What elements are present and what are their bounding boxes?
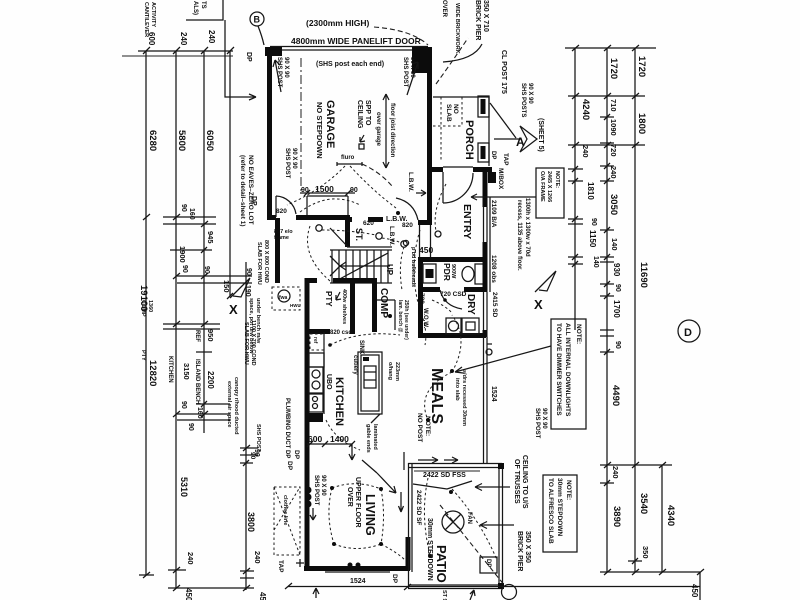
- svg-text:TAP: TAP: [277, 560, 284, 573]
- patio top double line: [408, 463, 502, 465]
- svg-text:240: 240: [207, 30, 216, 44]
- svg-text:1810: 1810: [586, 182, 595, 200]
- dim line R3: [634, 48, 636, 572]
- svg-text:240: 240: [186, 552, 195, 565]
- svg-text:(SHS post each end): (SHS post each end): [316, 61, 384, 68]
- patio left sliding door double: [408, 463, 410, 588]
- dim 1500: [300, 192, 355, 194]
- svg-text:90: 90: [245, 268, 252, 276]
- entry door arc: [443, 172, 473, 203]
- long dashed diagonal to DP: [440, 505, 505, 586]
- svg-text:3890: 3890: [611, 506, 622, 527]
- GARAGE AND TOP: [250, 18, 432, 218]
- svg-text:X: X: [229, 302, 238, 317]
- svg-text:90 X 90: 90 X 90: [527, 83, 533, 104]
- svg-text:X: X: [534, 297, 543, 312]
- corner arrows: [377, 473, 396, 493]
- svg-text:D: D: [684, 327, 692, 339]
- corner line bottom right: [699, 572, 701, 600]
- right wall of meals window 1524: [483, 337, 485, 464]
- svg-text:SHS POST: SHS POST: [313, 475, 319, 506]
- svg-text:3150: 3150: [182, 363, 191, 380]
- BOTTOM BOUNDARY: [285, 583, 700, 600]
- svg-text:NO STEPDOWN: NO STEPDOWN: [315, 102, 324, 159]
- svg-text:REF: REF: [194, 330, 200, 342]
- svg-text:90: 90: [614, 341, 621, 349]
- dots on bottom wall: [348, 563, 353, 568]
- corner piers black: [498, 463, 504, 469]
- dim line left A 19100: [145, 51, 147, 575]
- svg-text:ST.: ST.: [354, 228, 364, 241]
- garage rear wall with door: [267, 215, 276, 220]
- ref space dashed: [310, 334, 324, 350]
- svg-text:BRICK PIER: BRICK PIER: [516, 531, 523, 571]
- svg-text:90 X 90: 90 X 90: [291, 148, 297, 169]
- svg-text:90: 90: [181, 265, 188, 273]
- svg-text:B: B: [254, 15, 261, 25]
- svg-text:PTY: PTY: [140, 350, 146, 361]
- island bench: [358, 352, 382, 414]
- grid bubble B: [250, 12, 264, 26]
- svg-text:720: 720: [609, 144, 618, 157]
- garage door arc 820: [275, 196, 277, 217]
- svg-text:into slab: into slab: [454, 378, 460, 401]
- svg-text:820: 820: [276, 208, 287, 215]
- svg-text:NO POST: NO POST: [416, 413, 423, 442]
- svg-text:250h (see under): 250h (see under): [403, 300, 409, 340]
- RIGHT DIMENSION GRID: [565, 45, 704, 600]
- svg-text:UBO: UBO: [325, 374, 332, 390]
- RIGHT OUTER WALL: [471, 167, 586, 429]
- svg-text:fwa: fwa: [279, 295, 288, 301]
- svg-text:2200: 2200: [206, 371, 215, 389]
- svg-text:30mm STEPDOWN: 30mm STEPDOWN: [426, 518, 433, 581]
- dim line left D: [229, 51, 231, 296]
- cut circle bottom: [502, 585, 517, 600]
- svg-text:6280: 6280: [147, 130, 158, 151]
- svg-text:PATIO: PATIO: [434, 545, 449, 583]
- svg-text:1090: 1090: [609, 119, 618, 136]
- svg-text:1800: 1800: [636, 113, 647, 134]
- pantry bottom wall: [305, 329, 330, 334]
- svg-text:4340: 4340: [665, 505, 676, 526]
- PDR toilet: [475, 264, 484, 284]
- svg-text:gable ends: gable ends: [365, 424, 371, 453]
- svg-text:OVER: OVER: [441, 0, 447, 18]
- meals dashed wiring: [425, 372, 452, 420]
- svg-text:12820: 12820: [147, 360, 158, 386]
- svg-text:L.B.W.: L.B.W.: [388, 226, 395, 246]
- svg-text:M/BOX: M/BOX: [497, 168, 504, 190]
- lights in hall: [316, 225, 322, 231]
- svg-text:frame: frame: [274, 235, 289, 241]
- svg-text:90 X 90: 90 X 90: [283, 57, 289, 78]
- porch outline: [433, 97, 489, 166]
- svg-text:DP: DP: [485, 559, 491, 567]
- svg-text:160: 160: [196, 407, 203, 419]
- svg-text:450: 450: [184, 588, 193, 600]
- hotplate unit: [309, 394, 323, 412]
- svg-text:NOTE:: NOTE:: [565, 480, 572, 500]
- svg-text:CEILING: CEILING: [356, 100, 363, 129]
- svg-text:1300h x 1300w x 70d: 1300h x 1300w x 70d: [524, 198, 530, 257]
- dim line R4: [661, 465, 663, 572]
- LIVING: [274, 450, 410, 585]
- svg-text:DRY: DRY: [465, 294, 476, 315]
- svg-text:ref: ref: [312, 337, 318, 344]
- fan: [442, 511, 464, 533]
- svg-text:external air space: external air space: [226, 381, 232, 427]
- ENTRY NICHE PDR DRY: [403, 172, 486, 337]
- PDR top wall: [418, 257, 486, 262]
- svg-text:SHS POST: SHS POST: [534, 408, 540, 439]
- svg-text:90: 90: [180, 401, 187, 409]
- main left wall: [305, 278, 310, 571]
- svg-text:DP: DP: [286, 461, 293, 471]
- svg-text:11690: 11690: [638, 262, 649, 288]
- tick rows left: [163, 216, 216, 218]
- stair arrow: [340, 262, 390, 270]
- corner slashes: [285, 583, 411, 590]
- stair diagonal: [330, 228, 348, 247]
- svg-text:1700: 1700: [612, 300, 621, 318]
- svg-text:1208 obs: 1208 obs: [490, 255, 497, 283]
- stairs treads: [332, 250, 388, 283]
- svg-text:SHS POSTS: SHS POSTS: [520, 83, 526, 117]
- svg-text:450: 450: [419, 245, 433, 255]
- svg-text:90: 90: [614, 284, 621, 292]
- DP box patio: [480, 557, 497, 573]
- svg-text:45: 45: [258, 592, 267, 600]
- svg-text:DP: DP: [245, 52, 252, 62]
- svg-text:SHS POST: SHS POST: [255, 424, 261, 452]
- svg-text:930: 930: [612, 263, 621, 277]
- svg-text:L.B.W.: L.B.W.: [407, 172, 414, 192]
- svg-text:350 X 710: 350 X 710: [482, 0, 489, 32]
- svg-text:LIVING: LIVING: [363, 494, 377, 536]
- svg-text:240: 240: [179, 32, 188, 46]
- svg-text:240: 240: [253, 551, 262, 564]
- patio bottom: [408, 584, 503, 586]
- hall left wall: [275, 218, 280, 283]
- tick slashes: [143, 214, 250, 591]
- PDR bottom wall with 720 csd: [418, 287, 440, 292]
- dim line R1: [574, 48, 576, 330]
- floor joist direction arrow: [385, 94, 387, 168]
- svg-text:90 X 90: 90 X 90: [320, 475, 326, 496]
- svg-text:3800: 3800: [246, 512, 256, 532]
- svg-text:5800: 5800: [176, 130, 187, 151]
- svg-text:WIDE BRICKWORK: WIDE BRICKWORK: [454, 3, 460, 54]
- top horizontal dim line: [138, 50, 233, 52]
- garage right wall: [427, 56, 432, 225]
- dim line left C: [203, 51, 205, 433]
- svg-text:800 X 800 COND: 800 X 800 COND: [263, 240, 269, 283]
- svg-text:820 csd: 820 csd: [330, 330, 352, 336]
- svg-text:COMP: COMP: [378, 288, 389, 318]
- svg-text:SLAB FOR HWU: SLAB FOR HWU: [256, 242, 262, 285]
- clothes line: [274, 487, 300, 555]
- svg-text:ALL INTERNAL DOWNLIGHTS: ALL INTERNAL DOWNLIGHTS: [564, 323, 571, 417]
- ST closet wall: [345, 219, 350, 247]
- svg-text:710: 710: [609, 99, 618, 112]
- svg-text:BRICK PIER: BRICK PIER: [474, 0, 481, 40]
- garage door left jamb: [265, 47, 282, 56]
- svg-text:223mm: 223mm: [394, 362, 400, 381]
- svg-text:CANTILEVER: CANTILEVER: [143, 2, 149, 37]
- entry wall stub: [418, 220, 432, 225]
- window in bottom wall: [325, 571, 390, 573]
- tick slashes right: [572, 45, 704, 575]
- svg-text:TS: TS: [200, 1, 206, 9]
- joists note box: [186, 0, 223, 20]
- svg-text:900W: 900W: [450, 264, 456, 279]
- svg-text:620: 620: [363, 220, 374, 227]
- window 1208 obs: [483, 207, 485, 242]
- svg-text:945: 945: [206, 231, 215, 244]
- svg-text:o/hang: o/hang: [387, 362, 393, 380]
- svg-text:1720: 1720: [636, 56, 647, 77]
- grid bubble D: [678, 320, 700, 342]
- svg-text:DP: DP: [250, 196, 257, 206]
- svg-text:ST 90: ST 90: [441, 590, 447, 600]
- svg-text:4240: 4240: [580, 99, 591, 120]
- svg-text:fluro: fluro: [341, 155, 355, 161]
- PDR vanity: [423, 264, 436, 283]
- left arrows: [399, 492, 404, 512]
- PANTRY COMP KITCHEN: [272, 278, 409, 571]
- svg-text:W.O.W.: W.O.W.: [422, 308, 428, 329]
- section marker X left: [230, 278, 250, 298]
- svg-text:350 X 350: 350 X 350: [524, 531, 531, 563]
- svg-text:820: 820: [402, 222, 413, 229]
- svg-text:160: 160: [188, 208, 195, 220]
- svg-text:KITCHEN: KITCHEN: [167, 356, 173, 383]
- front wall: [427, 167, 443, 172]
- svg-text:1524: 1524: [350, 578, 366, 585]
- svg-text:720 CSD: 720 CSD: [440, 291, 467, 298]
- svg-text:150: 150: [222, 280, 231, 293]
- kitchen dim 600 1400: [307, 443, 352, 445]
- garage panelift door lines: [270, 46, 428, 48]
- svg-text:KITCHEN: KITCHEN: [333, 377, 345, 426]
- svg-text:PTY: PTY: [324, 291, 333, 307]
- svg-text:SLAB: SLAB: [445, 104, 452, 122]
- living right wall lower: [406, 537, 411, 570]
- svg-text:90 X 90: 90 X 90: [541, 408, 547, 429]
- svg-text:ISLAND BENCH: ISLAND BENCH: [194, 359, 200, 404]
- svg-text:under bench m/w: under bench m/w: [255, 298, 261, 344]
- DRY door arc: [440, 290, 462, 309]
- wall post blobs: [305, 487, 312, 494]
- svg-text:DP: DP: [293, 450, 300, 460]
- svg-text:OVER: OVER: [346, 487, 353, 507]
- svg-text:1720: 1720: [608, 58, 619, 79]
- svg-text:90: 90: [187, 423, 194, 431]
- svg-text:NOTE:: NOTE:: [554, 171, 560, 188]
- hall bottom wall: [305, 278, 317, 283]
- patio dashed wiring: [424, 478, 430, 555]
- sliding door 2415 SD: [483, 292, 485, 330]
- svg-text:190: 190: [244, 285, 251, 297]
- svg-text:2422 SD FSS: 2422 SD FSS: [423, 472, 466, 479]
- dot: [396, 211, 400, 215]
- svg-text:240: 240: [609, 166, 618, 179]
- kitchen dashed wiring: [330, 334, 400, 345]
- ticks top: [143, 47, 234, 54]
- svg-text:laminated: laminated: [372, 424, 378, 450]
- svg-text:over garage: over garage: [375, 112, 381, 147]
- PATIO: [399, 452, 578, 589]
- section marker X right: [535, 271, 556, 292]
- svg-text:(refer to detail–sheet 1): (refer to detail–sheet 1): [239, 155, 246, 227]
- comp wall: [372, 278, 377, 332]
- joists leader: [225, 20, 256, 100]
- svg-text:A: A: [516, 135, 525, 149]
- DRY bottom wall: [418, 333, 486, 338]
- svg-text:CL POST 175: CL POST 175: [500, 50, 507, 94]
- svg-text:lam. bench @: lam. bench @: [397, 300, 403, 333]
- svg-text:4490: 4490: [610, 385, 621, 406]
- pantry divider wall: [350, 278, 355, 332]
- svg-text:2109 B/A: 2109 B/A: [490, 200, 497, 228]
- leader dashed to door: [374, 27, 428, 45]
- svg-text:TO HAVE DIMMER SWITCHES: TO HAVE DIMMER SWITCHES: [555, 323, 562, 416]
- svg-text:SHS POST: SHS POST: [284, 148, 290, 179]
- svg-text:1150: 1150: [588, 230, 597, 248]
- svg-text:NOTE:: NOTE:: [575, 324, 582, 344]
- garage centerline dashed: [300, 58, 302, 193]
- svg-text:COMP: COMP: [140, 300, 146, 317]
- svg-text:TO ALFRESCO SLAB: TO ALFRESCO SLAB: [547, 478, 554, 544]
- svg-text:2415 SD: 2415 SD: [491, 292, 498, 318]
- svg-text:floor joist direction: floor joist direction: [389, 103, 395, 158]
- living dashed loop: [332, 484, 381, 489]
- svg-text:2422 SD SF: 2422 SD SF: [415, 490, 422, 525]
- hall-entry door arc: [396, 198, 418, 220]
- svg-text:90: 90: [180, 204, 187, 212]
- svg-text:TAP: TAP: [502, 153, 509, 166]
- svg-text:450: 450: [690, 584, 699, 598]
- svg-text:3050: 3050: [608, 194, 619, 215]
- svg-text:2465 X 1266: 2465 X 1266: [546, 171, 552, 202]
- svg-text:UP: UP: [385, 264, 394, 276]
- svg-text:3540: 3540: [638, 493, 649, 514]
- svg-text:140: 140: [610, 238, 619, 251]
- entry right wall: [483, 167, 488, 207]
- svg-text:p'bd bulkheads: p'bd bulkheads: [410, 247, 416, 287]
- svg-text:space, pot drw below: space, pot drw below: [248, 298, 254, 354]
- svg-text:600: 600: [308, 434, 322, 444]
- svg-text:DP: DP: [391, 574, 398, 584]
- svg-text:s/drs recessed 30mm: s/drs recessed 30mm: [461, 370, 467, 426]
- svg-text:SINK: SINK: [358, 340, 364, 355]
- svg-text:cutlery: cutlery: [352, 355, 358, 375]
- PORCH ENTRY TOP RIGHT: [427, 0, 544, 225]
- wall top of ST with 620 door: [348, 217, 352, 222]
- svg-text:PORCH: PORCH: [463, 120, 475, 160]
- patio right: [498, 463, 500, 588]
- svg-text:350: 350: [641, 546, 650, 559]
- top arrows: [418, 457, 458, 463]
- svg-text:OF TRUSSES: OF TRUSSES: [513, 459, 520, 504]
- svg-text:ENTRY: ENTRY: [461, 204, 473, 239]
- kitchen bench outline: [323, 332, 325, 414]
- PDR left wall: [418, 259, 423, 290]
- dim line left B: [175, 51, 177, 588]
- HALL STAIRS ST: [256, 184, 426, 345]
- entry dashed electrical: [435, 184, 446, 231]
- svg-text:6050: 6050: [204, 130, 215, 151]
- DRY left wall: [418, 290, 423, 337]
- svg-text:90: 90: [203, 266, 210, 274]
- garage electrical dashed: [287, 166, 345, 205]
- svg-text:UPPER FLOOR: UPPER FLOOR: [354, 477, 361, 528]
- svg-text:CEILING TO U/S: CEILING TO U/S: [521, 455, 528, 509]
- svg-text:(SHEET 5): (SHEET 5): [537, 118, 544, 152]
- svg-text:1360: 1360: [147, 300, 153, 312]
- svg-text:NO EAVES–ZERO LOT: NO EAVES–ZERO LOT: [247, 155, 254, 225]
- comp desk: [377, 299, 395, 301]
- dim line left E 3800: [245, 262, 247, 590]
- DRY trough and washer: [446, 318, 461, 334]
- m/box black marker: [488, 172, 496, 183]
- svg-text:HWU: HWU: [290, 303, 301, 308]
- svg-text:DP: DP: [490, 151, 496, 159]
- svg-text:400w shelves: 400w shelves: [341, 289, 347, 324]
- svg-text:SHS POST: SHS POST: [402, 57, 408, 88]
- svg-text:O/A FRAME: O/A FRAME: [539, 171, 545, 202]
- fwa circle: [272, 287, 300, 310]
- dim line R2: [606, 48, 608, 572]
- garage left wall: [267, 47, 272, 218]
- svg-text:PLUMBING DUCT DP: PLUMBING DUCT DP: [284, 398, 290, 458]
- svg-text:5310: 5310: [179, 477, 189, 497]
- leader to note1: [455, 346, 551, 373]
- svg-text:ALS): ALS): [192, 1, 198, 15]
- wall pdr: [483, 242, 488, 292]
- svg-text:recess, 1135 above floor.: recess, 1135 above floor.: [516, 200, 522, 271]
- svg-text:240: 240: [611, 466, 620, 479]
- boundary line: [288, 586, 700, 588]
- note box 30mm stepdown alfresco: [543, 475, 577, 552]
- svg-text:canopy r/hood ducted: canopy r/hood ducted: [233, 377, 239, 434]
- MEALS: [416, 315, 551, 464]
- niche above stairs: [307, 195, 348, 197]
- horizontal ticks: [565, 47, 656, 49]
- svg-text:ACTIVITY: ACTIVITY: [150, 2, 156, 27]
- leader from note to niche: [471, 194, 536, 292]
- svg-text:NO: NO: [452, 104, 459, 114]
- svg-text:GARAGE: GARAGE: [324, 100, 336, 148]
- svg-text:1900: 1900: [178, 246, 187, 263]
- svg-text:30mm STEPDOWN: 30mm STEPDOWN: [556, 478, 563, 536]
- black bench end: [306, 413, 323, 422]
- svg-text:4800mm WIDE PANELIFT DOOR: 4800mm WIDE PANELIFT DOOR: [291, 36, 421, 46]
- svg-text:240: 240: [581, 145, 590, 158]
- svg-text:1500: 1500: [315, 184, 334, 194]
- garage door right jamb pier 350x710: [412, 47, 432, 73]
- svg-text:1524: 1524: [490, 386, 497, 402]
- svg-text:SPP TO: SPP TO: [364, 100, 371, 126]
- porch posts: [478, 96, 489, 117]
- svg-text:140: 140: [592, 256, 599, 268]
- kitchen sink unit: [309, 353, 324, 367]
- living bottom wall: [304, 566, 410, 571]
- svg-text:90: 90: [590, 218, 597, 226]
- svg-text:90: 90: [249, 452, 256, 460]
- LEFT DIMENSION GRID: [122, 0, 267, 600]
